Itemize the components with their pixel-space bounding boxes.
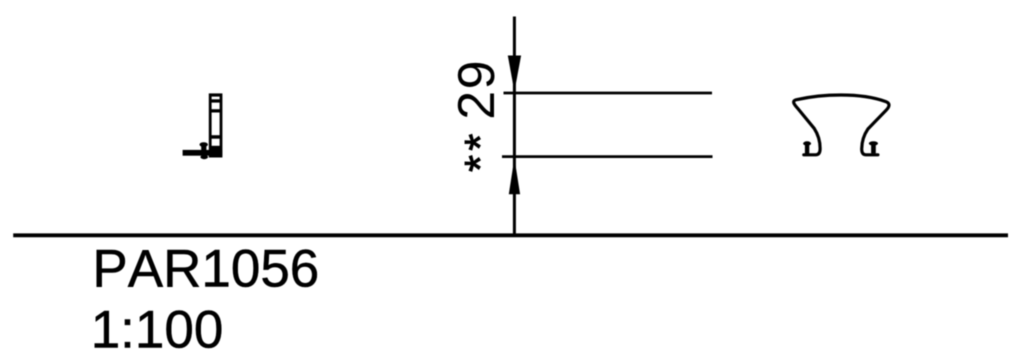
svg-text:1:100: 1:100	[91, 301, 224, 360]
svg-text:PAR1056: PAR1056	[92, 240, 319, 299]
svg-text:**29: **29	[448, 60, 506, 172]
